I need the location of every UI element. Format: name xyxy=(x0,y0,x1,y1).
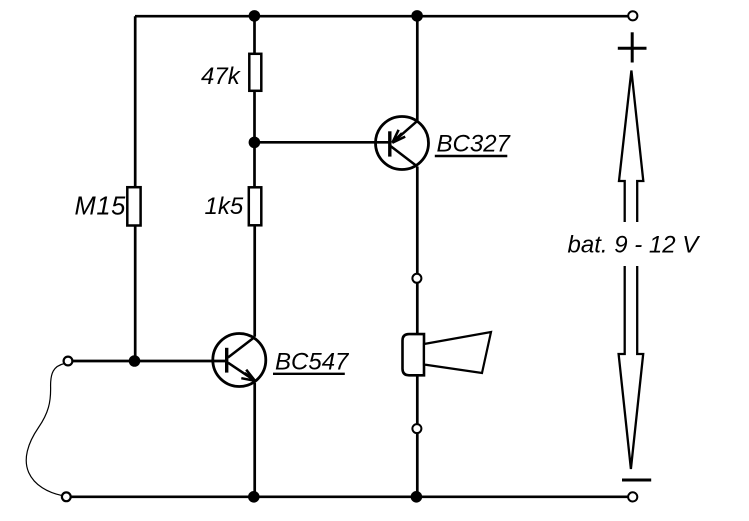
svg-text:BC547: BC547 xyxy=(275,349,350,376)
svg-text:BC327: BC327 xyxy=(437,131,512,158)
svg-text:M15: M15 xyxy=(75,193,127,221)
svg-text:1k5: 1k5 xyxy=(205,193,244,220)
svg-text:bat. 9 - 12 V: bat. 9 - 12 V xyxy=(568,232,701,259)
svg-text:47k: 47k xyxy=(201,63,242,90)
